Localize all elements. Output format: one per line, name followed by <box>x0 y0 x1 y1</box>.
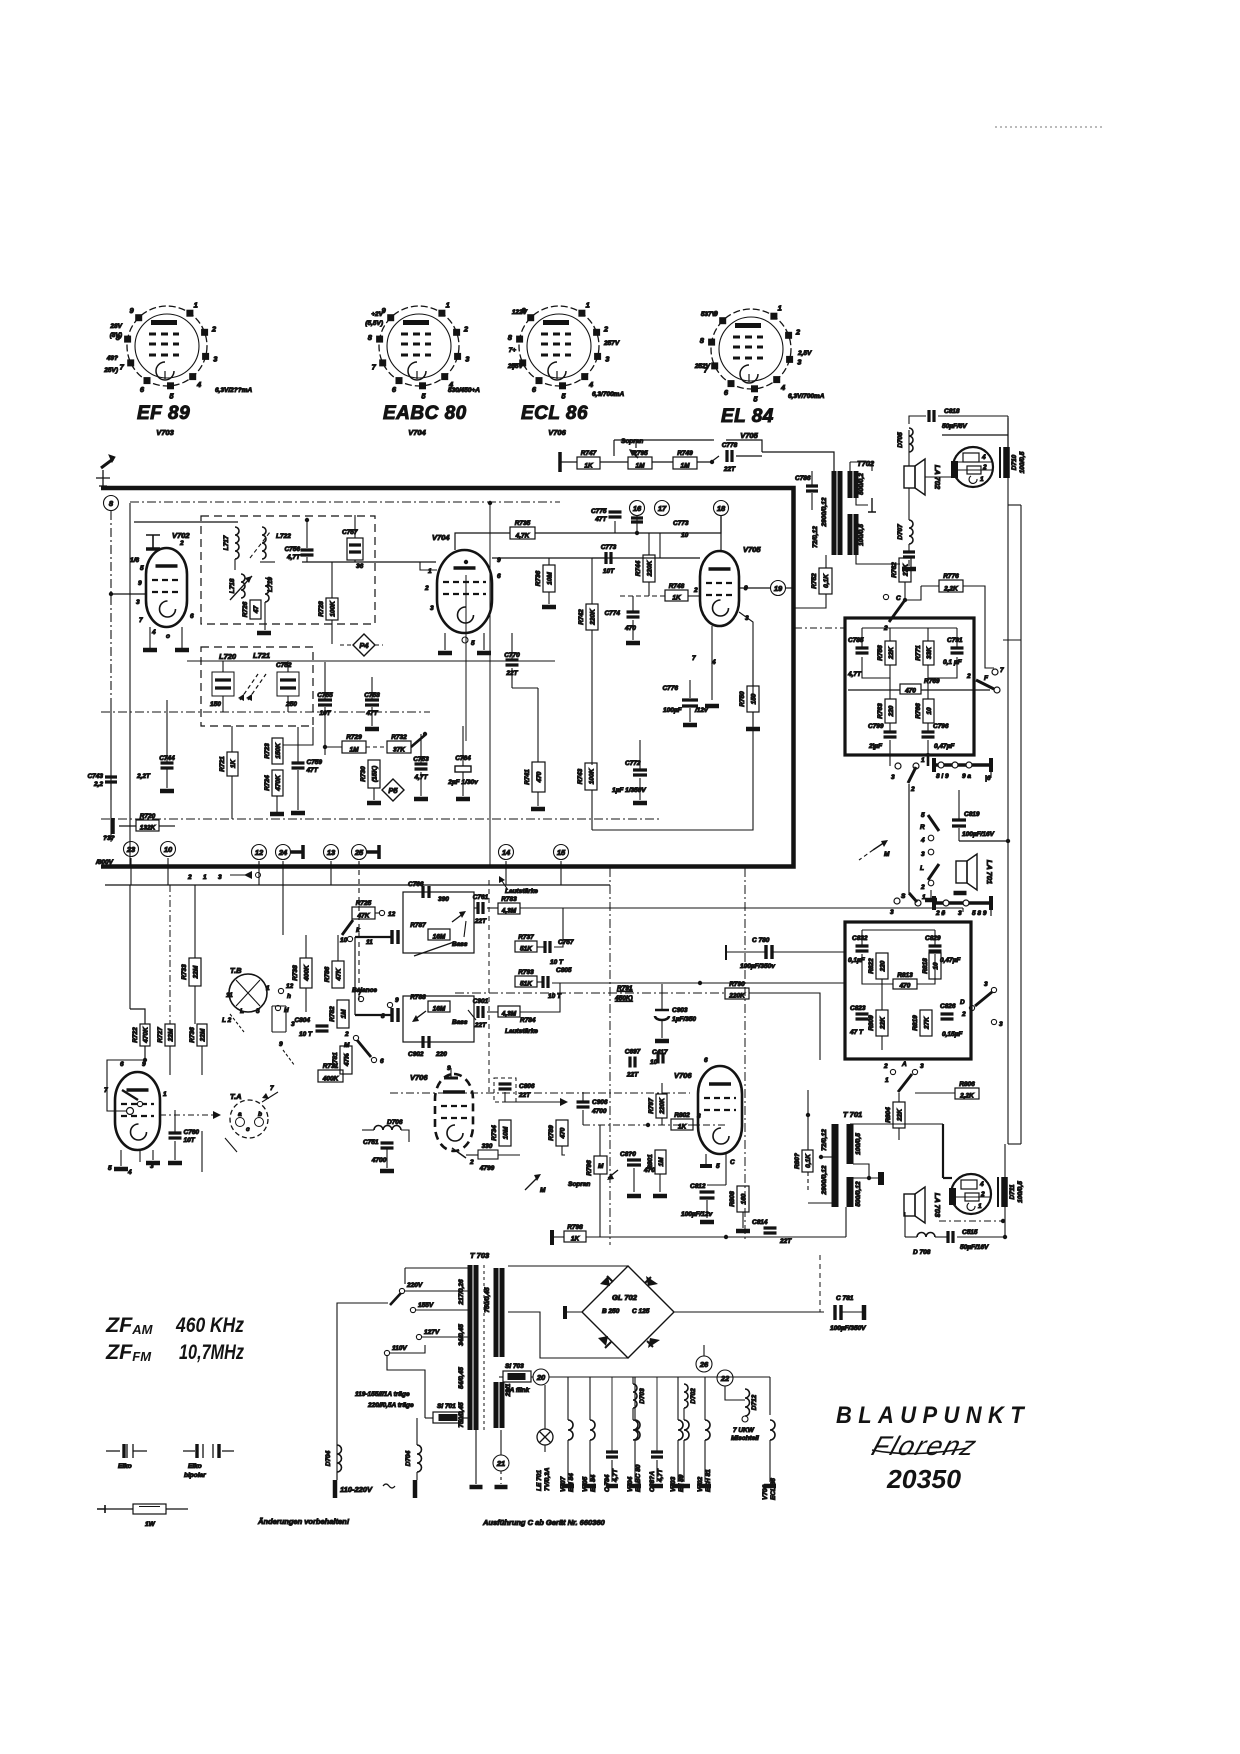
wire <box>938 415 1008 417</box>
svg-text:7+: 7+ <box>509 347 517 354</box>
wire <box>110 700 112 842</box>
wire <box>489 503 491 866</box>
svg-text:L718: L718 <box>229 578 236 593</box>
wire <box>889 678 891 699</box>
svg-text:C812: C812 <box>690 1183 706 1190</box>
plug pin after 25 <box>367 845 379 859</box>
wire <box>504 1102 506 1120</box>
M pointer <box>873 842 885 850</box>
svg-text:1: 1 <box>885 1077 889 1084</box>
wire <box>656 1377 658 1451</box>
resistor R748 <box>665 583 688 602</box>
switch A below box2 <box>890 1069 895 1074</box>
wire <box>752 770 754 830</box>
wire <box>537 981 543 983</box>
svg-text:EL 84: EL 84 <box>590 1474 597 1492</box>
wire <box>1007 416 1009 447</box>
wire <box>908 488 910 520</box>
svg-text:1: 1 <box>163 1091 167 1098</box>
svg-text:Änderungen vorbehalten!: Änderungen vorbehalten! <box>257 1517 350 1526</box>
svg-text:450K): 450K) <box>614 995 633 1002</box>
svg-text:2: 2 <box>693 587 698 594</box>
svg-text:2: 2 <box>910 786 915 793</box>
capacitor C770 <box>504 652 520 677</box>
wire <box>591 558 593 604</box>
svg-text:2: 2 <box>966 673 971 680</box>
svg-text:V706: V706 <box>548 428 566 437</box>
wire <box>582 1110 584 1125</box>
wire <box>861 1022 863 1046</box>
wire <box>330 861 332 885</box>
svg-text:7: 7 <box>692 655 696 662</box>
wire <box>420 562 437 570</box>
svg-text:C796: C796 <box>933 723 949 730</box>
svg-text:V703: V703 <box>156 428 174 437</box>
svg-text:3: 3 <box>984 981 988 988</box>
wire <box>848 689 900 691</box>
svg-text:3: 3 <box>890 909 894 916</box>
svg-text:LE 701: LE 701 <box>536 1470 543 1491</box>
svg-text:51K: 51K <box>520 981 533 988</box>
ground <box>678 1484 690 1489</box>
wire <box>465 575 467 741</box>
model name Florenz (script) <box>868 1431 982 1461</box>
coil <box>633 1420 638 1440</box>
svg-text:R788: R788 <box>410 994 426 1001</box>
wire <box>704 1440 706 1482</box>
wire <box>742 1154 744 1186</box>
tube <box>115 1072 160 1150</box>
svg-text:220: 220 <box>888 705 895 717</box>
svg-text:L719: L719 <box>267 577 274 592</box>
wire <box>793 594 826 608</box>
wire <box>661 984 663 1009</box>
svg-text:11: 11 <box>366 939 373 946</box>
wire <box>305 935 307 958</box>
wire <box>366 746 387 748</box>
ground <box>705 704 719 709</box>
wire <box>752 660 754 686</box>
svg-text:2: 2 <box>469 1159 474 1166</box>
wire <box>925 979 927 1010</box>
ground <box>633 801 647 806</box>
wire <box>662 983 700 985</box>
svg-text:2: 2 <box>982 464 987 471</box>
bridge rectifier GL702 <box>582 1266 674 1358</box>
wire <box>795 627 845 629</box>
svg-text:C 784: C 784 <box>604 1474 611 1492</box>
wire <box>927 628 929 641</box>
wire <box>375 912 379 914</box>
wire <box>512 687 538 689</box>
wire <box>683 1440 685 1482</box>
svg-text:C 125: C 125 <box>632 1308 650 1315</box>
terminal node 13 <box>324 845 339 860</box>
svg-text:2: 2 <box>187 874 192 881</box>
wire <box>340 644 353 646</box>
svg-text:4: 4 <box>981 454 986 461</box>
svg-text:R732: R732 <box>391 734 407 741</box>
wire <box>420 772 422 796</box>
resistor R795 <box>628 450 652 470</box>
wire <box>390 1092 690 1094</box>
svg-text:54/0,45: 54/0,45 <box>458 1367 465 1389</box>
wire <box>807 1090 809 1150</box>
svg-text:V704: V704 <box>408 428 426 437</box>
wire <box>908 560 910 566</box>
svg-text:ECL 86: ECL 86 <box>521 403 588 424</box>
resistor R725 <box>352 900 375 920</box>
capacitor <box>651 1452 663 1457</box>
svg-text:5: 5 <box>108 1165 112 1172</box>
resistor R749 <box>673 450 697 470</box>
coil <box>770 1420 775 1440</box>
wire <box>187 660 555 662</box>
resistor R741 <box>524 762 545 792</box>
svg-text:R822: R822 <box>868 958 875 974</box>
wire <box>373 788 375 800</box>
svg-text:0,1 µF: 0,1 µF <box>943 659 963 666</box>
svg-text:M: M <box>884 851 890 858</box>
tube V704 <box>432 533 492 633</box>
capacitor <box>903 552 915 557</box>
wire <box>904 558 906 564</box>
svg-text:R726: R726 <box>242 601 249 617</box>
svg-text:1M: 1M <box>341 1009 348 1019</box>
wire <box>935 1236 948 1238</box>
svg-text:V705: V705 <box>743 545 761 554</box>
resistor R738 <box>292 958 312 988</box>
wire <box>201 1131 203 1172</box>
svg-text:L: L <box>240 1008 244 1015</box>
capacitor <box>633 770 647 775</box>
capacitor <box>856 946 869 951</box>
svg-text:R: R <box>920 824 925 831</box>
svg-text:7V/0,3A: 7V/0,3A <box>544 1467 551 1491</box>
svg-text:R725: R725 <box>356 900 372 907</box>
svg-text:R806: R806 <box>959 1081 975 1088</box>
svg-text:R80?: R80? <box>794 1153 801 1169</box>
wire <box>633 1125 635 1159</box>
svg-text:Sopran: Sopran <box>568 1181 590 1188</box>
svg-text:50µF/6V: 50µF/6V <box>942 423 967 430</box>
wire <box>231 726 233 752</box>
svg-text:33K: 33K <box>926 646 933 659</box>
speaker LA 701 <box>956 854 994 890</box>
wire <box>492 557 700 559</box>
wire <box>683 1377 685 1384</box>
svg-text:C772: C772 <box>625 760 641 767</box>
svg-text:Sopran: Sopran <box>621 438 643 445</box>
svg-text:3: 3 <box>218 874 222 881</box>
resistor R801 <box>647 1150 666 1174</box>
svg-text:EL 84: EL 84 <box>721 406 774 427</box>
svg-text:C832: C832 <box>852 935 868 942</box>
capacitor <box>682 700 698 706</box>
svg-text:C773: C773 <box>673 520 689 527</box>
wire <box>152 1150 154 1160</box>
resistor R732 <box>387 734 411 754</box>
svg-text:R783: R783 <box>501 896 517 903</box>
resistor R806 <box>955 1081 979 1100</box>
wire <box>881 1036 883 1050</box>
svg-text:22T: 22T <box>518 1092 531 1099</box>
svg-text:26: 26 <box>699 1360 709 1369</box>
svg-text:25: 25 <box>354 848 364 857</box>
wire <box>856 555 900 564</box>
svg-text:R797: R797 <box>648 1098 655 1114</box>
svg-text:1K: 1K <box>584 463 594 470</box>
capacitor <box>700 1192 715 1198</box>
variable capacitor C752 250 <box>276 662 299 708</box>
svg-text:7: 7 <box>358 990 362 997</box>
wire <box>565 1311 582 1313</box>
svg-text:D707: D707 <box>897 524 904 540</box>
wire <box>656 1460 658 1482</box>
wire <box>561 1102 563 1120</box>
svg-text:2: 2 <box>920 884 925 891</box>
svg-text:c: c <box>246 1126 250 1133</box>
wire <box>345 1074 347 1082</box>
resistor R728 <box>318 598 338 620</box>
wire <box>591 790 593 830</box>
svg-text:Elko: Elko <box>118 1463 132 1470</box>
svg-text:C756: C756 <box>284 546 300 553</box>
resistor R723 <box>264 738 283 764</box>
coil <box>917 1233 935 1238</box>
svg-text:L717: L717 <box>223 535 230 550</box>
wire <box>355 1014 392 1016</box>
wire <box>639 740 641 769</box>
svg-text:4,3M: 4,3M <box>501 1011 517 1018</box>
coil former T.B <box>222 966 294 1032</box>
svg-text:4: 4 <box>196 380 202 389</box>
wire <box>554 908 563 947</box>
wire <box>704 1377 706 1420</box>
wire <box>648 533 650 555</box>
wire <box>739 612 753 700</box>
wire <box>677 1377 679 1420</box>
resistor R776 <box>939 573 963 593</box>
wire <box>632 1440 634 1450</box>
terminal node 8 <box>104 496 119 511</box>
svg-text:R762: R762 <box>891 562 898 578</box>
coil <box>568 1420 573 1440</box>
svg-text:22K: 22K <box>897 1108 904 1122</box>
wire <box>769 1236 771 1237</box>
ground <box>683 723 697 728</box>
wire <box>276 796 278 812</box>
svg-text:C906: C906 <box>592 1099 608 1106</box>
svg-text:470: 470 <box>624 625 636 632</box>
svg-text:R766: R766 <box>915 703 922 719</box>
wire <box>1008 1143 1021 1145</box>
variable capacitor 150 <box>210 672 234 708</box>
svg-text:R809: R809 <box>868 1015 875 1031</box>
coil D704 <box>417 1445 422 1472</box>
wire <box>905 586 921 600</box>
wire <box>583 1124 726 1126</box>
ground <box>380 1169 394 1174</box>
svg-text:7: 7 <box>270 1085 274 1092</box>
svg-text:o: o <box>166 633 170 640</box>
wire <box>706 1200 708 1218</box>
svg-text:+2V: +2V <box>371 311 383 318</box>
svg-text:1: 1 <box>428 568 432 575</box>
wire <box>990 765 992 778</box>
wire <box>614 521 616 533</box>
wire <box>639 778 641 800</box>
svg-text:9: 9 <box>279 1041 283 1048</box>
wire <box>845 1207 847 1237</box>
svg-text:Elko: Elko <box>188 1463 202 1470</box>
wire <box>921 585 939 587</box>
wire <box>958 828 960 841</box>
wire <box>962 908 964 912</box>
wire <box>725 1154 727 1185</box>
wire <box>905 1236 917 1238</box>
capacitor <box>627 612 640 617</box>
svg-text:36: 36 <box>356 563 364 570</box>
svg-text:5: 5 <box>140 565 144 572</box>
wire <box>343 1060 355 1076</box>
wire <box>558 452 562 472</box>
resistor R743 <box>577 763 597 790</box>
terminal node 20 <box>533 1369 549 1385</box>
svg-text:A: A <box>901 1061 907 1068</box>
svg-text:R791: R791 <box>617 985 633 992</box>
svg-text:470: 470 <box>899 983 911 990</box>
trimmer C757 <box>342 515 364 570</box>
capacitor <box>884 732 897 737</box>
wire <box>632 596 634 611</box>
svg-text:1: 1 <box>203 874 207 881</box>
legend Elko <box>106 1444 147 1470</box>
svg-text:M: M <box>598 1163 604 1170</box>
svg-text:400K: 400K <box>322 1076 340 1083</box>
svg-text:R793: R793 <box>518 969 534 976</box>
capacitor <box>631 518 643 522</box>
wire <box>120 1150 122 1166</box>
resistor R788 <box>410 994 450 1013</box>
svg-text:10 T: 10 T <box>299 1031 313 1038</box>
wire <box>248 1012 250 1100</box>
wire <box>648 582 650 596</box>
svg-text:C799: C799 <box>868 723 884 730</box>
svg-text:16: 16 <box>633 504 642 513</box>
svg-text:?3?: ?3? <box>103 835 115 842</box>
svg-text:R722: R722 <box>132 1027 139 1043</box>
svg-text:119-155///1A träge: 119-155///1A träge <box>355 1391 410 1398</box>
wire <box>362 1129 374 1131</box>
wire <box>712 439 714 441</box>
svg-text:3: 3 <box>921 851 925 858</box>
svg-text:5: 5 <box>256 1008 260 1015</box>
oscillator compartment (dashed) <box>201 647 313 726</box>
svg-text:22T: 22T <box>474 1022 487 1029</box>
wire <box>934 962 936 1010</box>
svg-text:GL 702: GL 702 <box>612 1293 638 1302</box>
svg-text:4,7T: 4,7T <box>847 671 862 678</box>
svg-text:D710: D710 <box>1011 454 1018 470</box>
ground <box>954 891 967 896</box>
svg-text:160: 160 <box>741 1193 748 1204</box>
svg-text:72/0,12: 72/0,12 <box>812 526 819 548</box>
wire <box>934 952 936 954</box>
ground <box>495 1485 508 1490</box>
resistor R736 <box>189 1024 207 1046</box>
svg-text:220//0,5A träge: 220//0,5A träge <box>367 1402 414 1409</box>
wire <box>659 1125 661 1150</box>
svg-text:C804: C804 <box>294 1017 310 1024</box>
svg-text:2900/0,12: 2900/0,12 <box>821 497 828 527</box>
wire <box>318 1034 322 1076</box>
coil D703 <box>633 1384 637 1408</box>
wire <box>739 587 770 589</box>
wire <box>632 1377 634 1384</box>
wire <box>567 1440 569 1482</box>
svg-text:C515: C515 <box>962 1229 978 1236</box>
wire <box>194 986 196 1024</box>
wire <box>633 1168 635 1192</box>
svg-text:C826: C826 <box>940 1003 956 1010</box>
svg-text:1M: 1M <box>635 463 645 470</box>
svg-text:C751: C751 <box>363 1139 379 1146</box>
wire <box>305 988 307 1012</box>
svg-text:17: 17 <box>658 504 667 513</box>
legend Elko bipolar <box>183 1444 234 1479</box>
wire <box>917 954 935 984</box>
wire <box>324 740 326 755</box>
wire <box>889 723 891 731</box>
svg-text:22T: 22T <box>474 918 487 925</box>
wire <box>849 462 851 471</box>
coil <box>684 1420 689 1440</box>
tube pinout EABC80 (V704) <box>365 301 480 438</box>
switch box (treble/bass network) <box>845 618 974 755</box>
wire <box>535 532 637 534</box>
svg-text:50µF/16V: 50µF/16V <box>960 1244 989 1251</box>
wire <box>505 1102 520 1155</box>
transformer T703 <box>458 1251 512 1430</box>
choke D710 <box>1000 447 1026 478</box>
wire <box>487 1011 498 1013</box>
svg-text:C773: C773 <box>601 544 617 551</box>
resistor R736 <box>535 565 555 592</box>
ground <box>168 1161 182 1166</box>
coil D707 <box>909 520 913 544</box>
ground <box>629 1484 641 1489</box>
ground <box>925 898 937 903</box>
wire <box>1008 504 1021 506</box>
svg-text:1: 1 <box>266 985 270 992</box>
svg-text:47K: 47K <box>357 913 371 920</box>
ground <box>627 1194 641 1199</box>
wire <box>769 1377 771 1415</box>
svg-text:bipolar: bipolar <box>184 1472 206 1479</box>
coil L718 <box>241 574 245 598</box>
potentiometer R796 Sopran <box>594 1156 607 1174</box>
svg-text:R784: R784 <box>520 1017 536 1024</box>
ground <box>902 567 916 572</box>
wire <box>297 770 299 810</box>
svg-text:10: 10 <box>340 937 348 944</box>
wire <box>260 561 275 563</box>
svg-text:T 703: T 703 <box>470 1251 490 1260</box>
resistor R813 <box>893 972 917 990</box>
svg-text:1: 1 <box>978 1203 982 1210</box>
tube <box>698 1066 742 1154</box>
